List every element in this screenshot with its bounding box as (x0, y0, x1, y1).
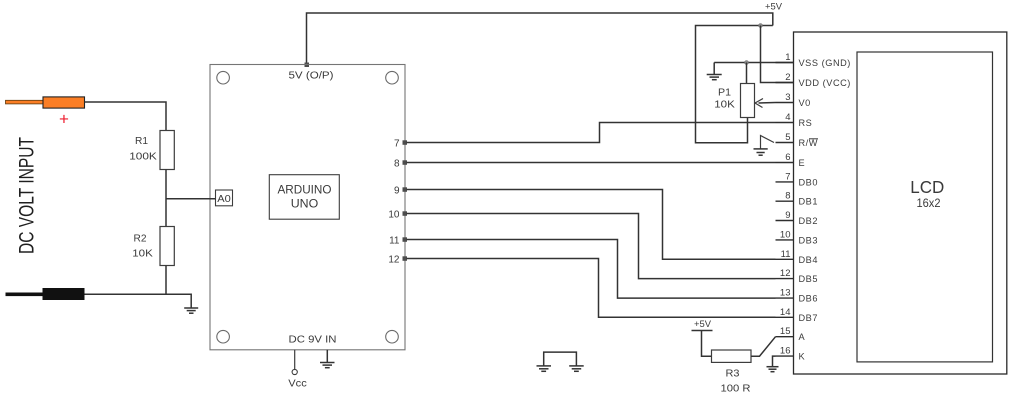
Arduino pin 7 square (403, 140, 408, 145)
wire probe+ to R1 (85, 102, 167, 131)
svg-text:DB3: DB3 (799, 235, 819, 245)
svg-text:R3: R3 (726, 369, 740, 380)
pin 4 stub (RS) (776, 122, 794, 124)
svg-text:DC 9V IN: DC 9V IN (289, 335, 337, 346)
wire divider tap to A0 (166, 198, 216, 200)
svg-text:12: 12 (388, 255, 400, 266)
pin 7 stub (DB0) (776, 181, 794, 183)
ground left of bracket (537, 366, 552, 371)
svg-text:Vcc: Vcc (288, 379, 307, 390)
svg-text:7: 7 (785, 171, 790, 182)
ground at input negative (184, 308, 198, 313)
svg-text:DB2: DB2 (799, 216, 819, 226)
wire pin11 to DB6 (407, 240, 776, 299)
wire VSS ground to LCD pin 1 (714, 62, 793, 64)
pin 1 stub (VSS (GND)) (776, 62, 794, 64)
mounting hole top-right (386, 71, 399, 84)
pin 9 stub (DB2) (776, 220, 794, 222)
svg-text:RS: RS (799, 118, 813, 128)
common ground bracket (544, 352, 577, 365)
pin square 5V O/P on Arduino top edge (305, 63, 310, 68)
LCD pin numbers (780, 52, 791, 357)
svg-text:A0: A0 (217, 194, 231, 205)
probe positive tip (6, 100, 44, 104)
wire pin12 to DB7 (407, 259, 776, 318)
pin 14 stub (DB7) (776, 316, 794, 318)
svg-text:+5V: +5V (765, 2, 783, 13)
svg-text:VDD (VCC): VDD (VCC) (799, 78, 851, 88)
wire R2 to ground rail (165, 266, 167, 295)
svg-text:UNO: UNO (291, 197, 319, 211)
svg-text:16x2: 16x2 (917, 196, 941, 210)
resistor R1 body (160, 131, 174, 170)
wire V0 to wiper (759, 102, 776, 105)
wire R1 to R2 (165, 170, 167, 227)
svg-text:9: 9 (785, 210, 790, 221)
svg-text:12: 12 (780, 268, 791, 279)
wiper arrow of P1 (755, 99, 763, 108)
wire pin10 to DB5 (407, 214, 776, 279)
wire pin8 to E (407, 162, 776, 164)
mounting hole bottom-left (217, 330, 230, 343)
pin 16 stub (K) (776, 355, 794, 357)
pin 11 stub (DB4) (776, 258, 794, 260)
Arduino pin 8 square (403, 160, 408, 165)
pin 8 stub (DB1) (776, 200, 794, 202)
svg-text:11: 11 (781, 249, 791, 260)
pin 10 stub (DB3) (776, 239, 794, 241)
pin 5 stub (R/W) (776, 142, 794, 144)
svg-text:ARDUINO: ARDUINO (278, 183, 332, 197)
ground at R/W (754, 149, 768, 155)
svg-text:7: 7 (394, 139, 400, 150)
wire +5V to VDD pin 2 (761, 26, 794, 83)
svg-text:11: 11 (389, 236, 400, 247)
svg-text:14: 14 (780, 307, 791, 318)
Arduino pin 12 square (403, 256, 408, 261)
+5V rail bar (R3 net) (692, 330, 713, 332)
pin 15 stub (A) (776, 336, 794, 338)
wire pot top to VSS (746, 63, 748, 84)
resistor R3 body (712, 350, 752, 362)
probe negative body (43, 288, 85, 300)
svg-text:DB5: DB5 (799, 274, 819, 284)
svg-text:LCD: LCD (910, 177, 944, 197)
svg-text:VSS (GND): VSS (GND) (799, 58, 851, 68)
svg-text:13: 13 (780, 288, 791, 299)
svg-text:+: + (59, 110, 69, 129)
Arduino pin 10 square (403, 211, 408, 216)
svg-text:15: 15 (780, 326, 791, 337)
svg-text:A: A (799, 332, 806, 342)
Arduino pin 9 square (403, 187, 408, 192)
svg-text:6: 6 (785, 152, 790, 163)
ground at K (767, 367, 779, 372)
svg-text:K: K (799, 352, 806, 362)
Arduino pin 11 square (403, 237, 408, 242)
potentiometer P1 body (741, 84, 755, 118)
LCD pin stubs 1-16 (776, 63, 794, 357)
LCD pin names (799, 58, 851, 362)
ground right of bracket (569, 366, 584, 371)
svg-text:DB7: DB7 (799, 313, 819, 323)
svg-text:3: 3 (785, 92, 790, 103)
svg-text:V0: V0 (799, 98, 811, 108)
resistor R2 body (160, 227, 174, 266)
probe positive body (43, 97, 85, 108)
wire R3 to pin A (15) (751, 337, 776, 357)
svg-text:4: 4 (785, 112, 790, 123)
svg-text:5V (O/P): 5V (O/P) (289, 71, 334, 82)
pin 13 stub (DB6) (776, 297, 794, 299)
svg-text:R/W: R/W (799, 138, 819, 148)
probe negative tip (6, 293, 43, 297)
svg-text:DB1: DB1 (799, 197, 819, 207)
Vcc pin stub (294, 350, 296, 370)
svg-text:10: 10 (388, 210, 400, 221)
ground at VSS net (707, 63, 722, 80)
Vcc terminal circle (292, 369, 297, 374)
svg-text:10K: 10K (132, 249, 153, 260)
svg-text:DB0: DB0 (799, 177, 819, 187)
svg-text:100K: 100K (129, 152, 157, 163)
svg-text:8: 8 (785, 191, 790, 202)
R/W switch lever to ground (761, 136, 775, 149)
wire pin7 to RS (407, 123, 776, 143)
wire +5V top rail from Arduino 5V O/P (307, 13, 773, 65)
wire +5V loop to P1 bottom terminal (696, 26, 773, 143)
mounting hole top-left (217, 71, 230, 84)
junction node pot top / VSS (745, 61, 749, 65)
wire K to ground (773, 356, 776, 366)
node A0 box (216, 190, 233, 206)
junction node +5V/VDD (759, 24, 763, 28)
svg-text:+5V: +5V (694, 319, 712, 330)
LCD module outline (794, 32, 1007, 374)
ground at DC 9V IN (320, 350, 335, 368)
svg-text:R1: R1 (135, 136, 148, 147)
Arduino board outline (210, 65, 405, 350)
pin 2 stub (VDD (VCC)) (776, 82, 794, 84)
svg-text:100 R: 100 R (721, 384, 751, 395)
pin 6 stub (E) (776, 162, 794, 164)
Arduino inner label box (269, 175, 339, 220)
pin 3 stub (V0) (776, 102, 794, 104)
pin 12 stub (DB5) (776, 278, 794, 280)
svg-text:1: 1 (785, 52, 790, 63)
LCD screen inner box (857, 52, 993, 362)
mounting hole bottom-right (386, 330, 399, 343)
wire probe- to ground (85, 294, 192, 307)
svg-text:2: 2 (785, 72, 790, 83)
overline on W of R/W (809, 138, 818, 140)
svg-text:DB4: DB4 (799, 255, 819, 265)
svg-text:16: 16 (780, 346, 791, 357)
wire +5V to R3 (702, 331, 712, 357)
svg-text:10: 10 (780, 229, 791, 240)
svg-text:8: 8 (394, 159, 400, 170)
svg-text:P1: P1 (718, 88, 731, 99)
svg-text:E: E (799, 158, 806, 168)
wire pin9 to DB4 (407, 190, 776, 260)
svg-text:9: 9 (394, 186, 400, 197)
svg-text:5: 5 (785, 132, 790, 143)
svg-text:R2: R2 (134, 234, 147, 245)
svg-text:10K: 10K (714, 100, 735, 111)
svg-text:DB6: DB6 (799, 294, 819, 304)
svg-text:DC VOLT INPUT: DC VOLT INPUT (16, 137, 39, 254)
